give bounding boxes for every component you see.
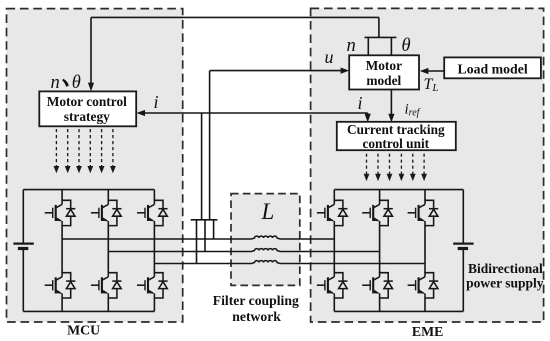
gate drive dashed arrows EME xyxy=(364,154,370,182)
wire: i measurement line xyxy=(144,113,368,220)
wire: i_ref line xyxy=(390,90,392,116)
block: Motor control strategy U1 xyxy=(39,91,136,126)
svg-text:Filter coupling: Filter coupling xyxy=(213,293,299,308)
wire: MCU DC- rail xyxy=(23,310,154,312)
wire: measurement tap bar xyxy=(191,219,218,221)
svg-text:network: network xyxy=(232,309,281,324)
wire: EME leg 3 xyxy=(424,190,426,312)
arrowhead: i into current tracking unit xyxy=(365,114,371,123)
wire: EME leg 1 xyxy=(333,190,335,312)
IGBT Q7 (EME leg1 top) xyxy=(317,200,348,226)
svg-text:control unit: control unit xyxy=(362,136,429,151)
wire: EME battery branch xyxy=(462,190,464,312)
svg-text:power supply: power supply xyxy=(466,276,544,291)
wire: EME DC+ rail xyxy=(334,189,463,191)
wire: n lead into motor model xyxy=(367,37,369,55)
wire: phase line 2 xyxy=(108,251,379,253)
block: Motor model U2 xyxy=(349,55,419,89)
wire: n-theta bar above motor model xyxy=(365,36,397,38)
wire: MCU DC+ rail xyxy=(23,189,154,191)
svg-text:EME: EME xyxy=(412,324,443,339)
wire: EME DC- rail xyxy=(334,310,463,312)
IGBT Q9 (EME leg2 top) xyxy=(362,200,393,226)
wire: tap drop to phase 1 xyxy=(213,220,215,239)
svg-text:θ: θ xyxy=(72,73,81,93)
wire: n/theta feedback top line xyxy=(91,16,379,18)
IGBT Q1 (MCU leg1 top) xyxy=(45,200,76,226)
IGBT Q8 (EME leg1 bottom) xyxy=(317,272,348,298)
svg-text:θ: θ xyxy=(402,36,411,56)
IGBT Q4 (MCU leg2 bottom) xyxy=(91,272,122,298)
block: Current tracking control unit U4 xyxy=(337,122,456,150)
svg-text:n: n xyxy=(51,73,60,93)
block: Load model U3 xyxy=(444,57,541,78)
EME dashed box xyxy=(311,8,544,322)
svg-text:i: i xyxy=(358,93,363,113)
arrowhead: T_L into motor model xyxy=(420,68,429,74)
inductor L phase 1 xyxy=(252,236,281,239)
IGBT Q5 (MCU leg3 top) xyxy=(137,200,168,226)
gate drive dashed arrows MCU xyxy=(54,129,60,173)
svg-text:u: u xyxy=(325,47,334,67)
wire: load model torque line xyxy=(428,70,445,72)
svg-text:L: L xyxy=(261,199,275,224)
enumeration comma xyxy=(62,79,69,87)
wire: tap drop to phase 3 xyxy=(196,220,198,264)
svg-text:i: i xyxy=(154,92,159,112)
svg-text:Motor control: Motor control xyxy=(47,94,127,109)
battery B2 (bidirectional power supply) xyxy=(453,244,473,249)
wire: theta lead into motor model xyxy=(390,37,392,55)
svg-text:Motor: Motor xyxy=(366,58,402,73)
wire: MCU leg 3 xyxy=(153,190,155,312)
svg-text:strategy: strategy xyxy=(64,109,110,124)
svg-text:Load model: Load model xyxy=(458,62,528,77)
wire: feedback drop to motor control strategy xyxy=(90,17,92,84)
arrowhead: n/theta into motor control strategy xyxy=(88,83,94,92)
arrowhead: i_ref into current tracking unit xyxy=(388,114,394,123)
inductor L phase 2 xyxy=(252,249,281,252)
MCU dashed box xyxy=(7,9,183,322)
IGBT Q6 (MCU leg3 bottom) xyxy=(137,272,168,298)
wire: tap drop to phase 2 xyxy=(204,220,206,252)
filter L dashed box xyxy=(231,194,300,286)
IGBT Q11 (EME leg3 top) xyxy=(408,200,439,226)
wire: phase line 1 xyxy=(62,238,334,240)
IGBT Q3 (MCU leg2 top) xyxy=(91,200,122,226)
wire: MCU leg 1 xyxy=(61,190,63,312)
arrowhead: i into motor control strategy xyxy=(136,110,145,116)
svg-text:MCU: MCU xyxy=(67,322,100,337)
arrowhead: u into motor model xyxy=(341,68,350,74)
svg-text:model: model xyxy=(366,73,401,88)
wire: phase line 3 xyxy=(154,263,425,265)
IGBT Q10 (EME leg2 bottom) xyxy=(362,272,393,298)
inductor L phase 3 xyxy=(252,261,281,264)
wire: EME leg 2 xyxy=(379,190,381,312)
IGBT Q12 (EME leg3 bottom) xyxy=(408,272,439,298)
wire: feedback drop to n/theta bar xyxy=(378,17,380,37)
wire: u measurement line xyxy=(210,71,342,220)
battery B1 (MCU supply) xyxy=(13,244,33,249)
svg-text:Bidirectional: Bidirectional xyxy=(468,261,543,276)
IGBT Q2 (MCU leg1 bottom) xyxy=(45,272,76,298)
wire: MCU battery branch xyxy=(22,190,24,312)
wire: MCU leg 2 xyxy=(107,190,109,312)
svg-text:n: n xyxy=(347,36,356,56)
